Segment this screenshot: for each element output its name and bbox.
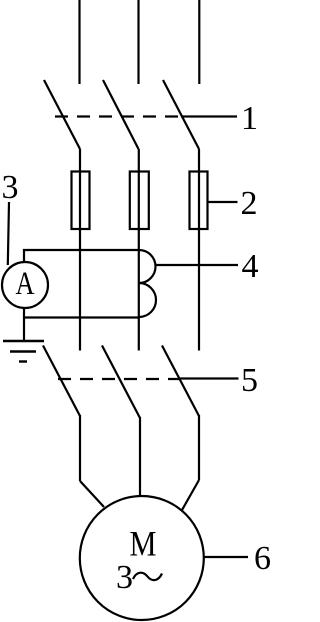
- fuse FU2 body: [130, 172, 149, 230]
- ground symbol bar 2: [10, 350, 36, 352]
- ground symbol bar 3: [19, 360, 27, 362]
- contactor linkage dashed line: [58, 378, 180, 380]
- svg-text:M: M: [130, 524, 157, 564]
- motor tilde (AC symbol): [133, 573, 162, 580]
- current transformer winding bump 2: [139, 283, 156, 317]
- ground symbol bar 1: [3, 340, 44, 342]
- wire motor feed 3 bend: [182, 480, 199, 510]
- leader line to label 5: [180, 377, 239, 379]
- wire phase L1 incoming: [78, 0, 80, 84]
- switch QS linkage dashed line: [55, 115, 181, 117]
- svg-text:A: A: [16, 266, 35, 302]
- leader line to label 6: [203, 556, 248, 558]
- wire L1 middle section: [79, 149, 81, 351]
- contactor switch pole 1 blade: [43, 346, 80, 417]
- leader line from label 3 to ammeter: [8, 202, 9, 265]
- svg-text:4: 4: [242, 248, 259, 285]
- leader line to label 4: [155, 264, 238, 266]
- wire L2 middle section: [138, 149, 140, 351]
- wire ammeter bottom drop to ground: [23, 307, 25, 341]
- wire CT secondary bottom: [23, 316, 139, 318]
- disconnect switch QS pole 1 blade: [44, 80, 80, 149]
- wire motor feed 1 vertical: [79, 415, 81, 481]
- ammeter A1 circle: [2, 262, 48, 308]
- svg-text:1: 1: [241, 100, 258, 137]
- svg-text:3: 3: [2, 169, 19, 206]
- motor M1 circle: [80, 496, 204, 620]
- svg-text:3: 3: [116, 559, 133, 596]
- svg-text:2: 2: [241, 185, 258, 222]
- wire motor feed 1 bend: [80, 481, 104, 507]
- current transformer winding bump 1: [139, 250, 156, 283]
- fuse FU3 body: [190, 172, 208, 230]
- svg-text:5: 5: [241, 362, 258, 399]
- contactor switch pole 2 blade: [102, 346, 140, 419]
- leader line to label 2: [208, 201, 238, 203]
- wire ammeter top riser: [23, 249, 25, 263]
- contactor switch pole 3 blade: [162, 346, 199, 417]
- wire phase L3 incoming: [198, 0, 200, 84]
- leader line to label 1: [181, 115, 237, 117]
- disconnect switch QS pole 3 blade: [163, 80, 199, 149]
- wire phase L2 incoming: [137, 0, 139, 84]
- wire motor feed 3 vertical: [198, 415, 200, 480]
- wire CT secondary top: [23, 249, 139, 251]
- svg-text:6: 6: [254, 540, 271, 577]
- wire motor feed 2 vertical: [139, 417, 141, 497]
- disconnect switch QS pole 2 blade: [103, 80, 139, 149]
- wire L3 middle section: [198, 149, 200, 351]
- fuse FU1 body: [72, 172, 90, 230]
